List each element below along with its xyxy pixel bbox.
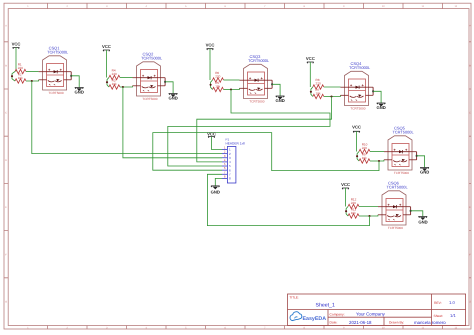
svg-text:10k: 10k [215,84,220,88]
label CSQ6 [387,181,409,231]
label CSQ1 [47,46,69,96]
svg-text:D: D [5,159,7,162]
resistor R7 10k [313,88,324,99]
resistor R12 220 [348,198,378,209]
svg-text:VCC: VCC [352,125,361,130]
power flag VCC (P1 pin1) [207,132,222,150]
resistor R11 10k [348,207,359,218]
resistor R4 220 [109,69,133,80]
optocoupler CSQ5 TCRT5000L [384,136,418,170]
svg-text:TCRT5000L: TCRT5000L [387,184,409,189]
svg-text:TCRT5000: TCRT5000 [49,91,64,95]
svg-text:2021-06-18: 2021-06-18 [349,320,372,325]
svg-text:TCRT5000L: TCRT5000L [349,65,371,70]
svg-text:TCRT5000: TCRT5000 [394,171,409,175]
wire: VCC node left of resistors (CSQ4) [310,87,313,97]
svg-text:10k: 10k [316,91,321,95]
svg-text:VCC: VCC [207,132,216,137]
label CSQ4 [349,61,371,111]
optocoupler CSQ6 TCRT5000L [378,191,412,225]
optocoupler CSQ3 TCRT5000L [240,64,274,98]
wire: R2 10k to phototransistor pin [26,80,39,82]
title block [288,294,466,326]
svg-text:Sheet_1: Sheet_1 [316,302,335,308]
wire: VCC node left of resistors (CSQ5) [356,152,359,162]
svg-text:10k: 10k [18,76,23,80]
svg-text:REV:: REV: [434,301,442,305]
svg-text:TCRT5000L: TCRT5000L [393,129,415,134]
wire: VCC node left of resistors (CSQ2) [106,78,109,88]
svg-text:VCC: VCC [341,182,350,187]
label CSQ3 [248,54,270,104]
wire: R3 10k to phototransistor pin [120,86,132,88]
ground (CSQ5) [417,156,430,175]
wire: VCC node left of resistors (CSQ1) [11,72,15,82]
wire: CSQ3 output to header [168,90,330,167]
svg-text:TCRT5000: TCRT5000 [388,226,403,230]
ground (CSQ3) [272,84,285,103]
optocoupler CSQ4 TCRT5000L [341,71,375,105]
power flag VCC (CSQ6) [341,182,350,207]
ground (CSQ1) [71,76,84,95]
power flag VCC (CSQ5) [352,125,361,152]
wire: R7 10k to phototransistor pin [324,95,341,97]
resistor R8 220 [313,78,341,89]
svg-text:Company:: Company: [330,313,345,317]
resistor R2 10k [15,72,26,83]
wire: R5 10k to phototransistor pin [224,88,240,90]
optocoupler CSQ1 TCRT5000L [39,56,73,90]
power flag VCC (CSQ2) [102,44,111,78]
svg-text:GND: GND [420,169,429,174]
svg-text:D: D [469,159,471,162]
svg-text:VCC: VCC [12,41,21,46]
svg-text:TCRT5000L: TCRT5000L [248,58,270,63]
svg-text:C: C [5,112,7,115]
ground (CSQ2) [165,82,178,101]
svg-text:VCC: VCC [306,56,315,61]
wire: CSQ6 output to header [207,174,369,225]
svg-text:TITLE:: TITLE: [290,296,299,300]
svg-text:10k: 10k [112,82,117,86]
ground (CSQ4) [373,91,386,110]
svg-text:Drawn By:: Drawn By: [389,321,404,325]
svg-text:10k: 10k [362,156,367,160]
svg-text:220: 220 [18,66,23,70]
svg-text:10k: 10k [351,211,356,215]
resistor R1 220 [15,63,39,74]
label CSQ5 [393,126,415,176]
power flag VCC (CSQ4) [306,56,315,87]
svg-text:maricela romero: maricela romero [414,320,446,325]
wire: R9 10k to phototransistor pin [370,160,384,162]
svg-text:GND: GND [168,95,177,100]
wire: R11 10k to phototransistor pin [359,215,378,217]
wire: CSQ2 output to header [123,87,222,158]
svg-text:G: G [5,301,7,304]
svg-text:Date:: Date: [330,321,338,325]
ground (CSQ6) [411,211,428,225]
svg-text:TCRT5000: TCRT5000 [142,97,157,101]
svg-text:G: G [469,301,471,304]
resistor R5 10k [213,81,224,92]
resistor R9 10k [359,152,370,163]
svg-text:TCRT5000L: TCRT5000L [47,49,69,54]
svg-text:1/1: 1/1 [450,313,456,318]
power flag VCC (CSQ3) [206,42,215,80]
optocoupler CSQ2 TCRT5000L [133,62,167,96]
svg-text:220: 220 [215,75,220,79]
svg-text:Your Company: Your Company [356,312,386,317]
svg-text:1.0: 1.0 [449,300,455,305]
power flag VCC (CSQ1) [12,41,21,71]
svg-text:Sheet:: Sheet: [434,314,444,318]
label CSQ2 [141,52,163,102]
wire: VCC node left of resistors (CSQ3) [210,80,213,90]
wire: CSQ4 output to header [197,97,332,162]
svg-text:HEADER 1x8: HEADER 1x8 [226,141,246,145]
svg-text:GND: GND [376,105,385,110]
resistor R6 220 [213,71,240,82]
ground (P1 pin8) [211,178,222,194]
svg-text:220: 220 [362,146,367,150]
svg-text:220: 220 [351,201,356,205]
svg-text:C: C [469,112,471,115]
svg-text:TCRT5000L: TCRT5000L [141,55,163,60]
connector P1 HEADER 1x8 [222,138,245,183]
resistor R10 220 [359,143,384,154]
wire: CSQ1 output to header [32,81,222,154]
svg-text:GND: GND [75,89,84,94]
svg-text:TCRT5000: TCRT5000 [249,100,264,104]
wire: CSQ5 output to header [153,133,379,171]
svg-text:GND: GND [275,98,284,103]
svg-text:220: 220 [316,82,321,86]
svg-text:220: 220 [112,72,117,76]
svg-text:EasyEDA: EasyEDA [303,316,327,322]
svg-text:GND: GND [418,219,427,224]
svg-text:VCC: VCC [102,44,111,49]
svg-text:TCRT5000: TCRT5000 [350,107,365,111]
svg-text:VCC: VCC [206,42,215,47]
wire: VCC node left of resistors (CSQ6) [345,207,348,217]
resistor R3 10k [109,78,120,89]
svg-text:GND: GND [211,189,220,194]
